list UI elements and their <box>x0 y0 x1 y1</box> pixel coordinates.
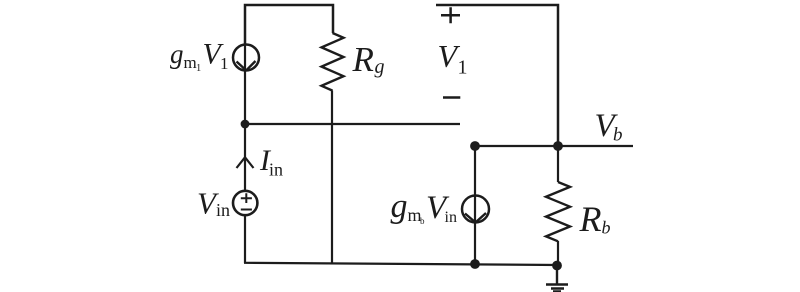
current source gm1V1 arrow <box>237 61 256 70</box>
arrow Iin <box>237 157 254 168</box>
voltage source Vin circle <box>233 191 257 215</box>
label Rg <box>352 40 385 79</box>
voltage source Vin minus sign <box>241 209 252 211</box>
wire Vin source bottom to bottom rail <box>244 216 246 264</box>
svg-text:1: 1 <box>220 54 229 73</box>
wire Vb output <box>475 145 633 147</box>
svg-text:m: m <box>184 53 197 72</box>
svg-text:in: in <box>216 200 230 220</box>
svg-text:b: b <box>613 125 623 146</box>
node C (gmb bottom) <box>470 259 480 269</box>
svg-text:1: 1 <box>196 63 201 74</box>
current source gm1V1 circle <box>233 45 259 71</box>
node B (gmb top) <box>470 141 480 151</box>
node A (input node) <box>241 120 250 129</box>
svg-text:b: b <box>602 218 611 238</box>
resistor Rg <box>322 33 344 91</box>
svg-text:g: g <box>170 39 184 69</box>
label Iin <box>259 144 283 180</box>
wire mid horizontal (V1 minus terminal) <box>245 123 460 125</box>
svg-text:g: g <box>391 188 408 225</box>
svg-text:1: 1 <box>458 57 468 79</box>
resistor Rb <box>546 182 570 241</box>
wire left branch through gm1V1 source <box>244 45 246 192</box>
svg-text:b: b <box>420 216 425 226</box>
label V1 (top right) <box>438 38 468 79</box>
svg-text:R: R <box>579 199 602 239</box>
node Vb <box>553 141 563 151</box>
svg-text:g: g <box>375 56 385 78</box>
wire Rb branch bottom <box>557 241 559 265</box>
wire Rg branch lower <box>331 91 333 264</box>
plus sign of V1 <box>441 7 460 23</box>
svg-text:in: in <box>445 209 457 226</box>
svg-text:R: R <box>352 40 374 79</box>
current source gmbVin arrow <box>465 213 486 222</box>
svg-text:in: in <box>269 160 283 180</box>
label Rb <box>579 199 611 239</box>
minus sign of V1 <box>443 96 460 99</box>
ground <box>546 265 568 292</box>
label gmbVin <box>391 188 457 226</box>
wire Rb branch top <box>557 146 559 182</box>
node ground junction <box>552 261 562 271</box>
label Vb <box>595 108 623 145</box>
wire top-right (V1 plus terminal) <box>436 5 558 146</box>
wire top-left loop <box>245 5 333 45</box>
voltage source Vin plus sign <box>241 193 252 203</box>
current source gmbVin circle <box>462 196 489 223</box>
wire gmb branch <box>474 146 476 264</box>
label Vin <box>197 185 230 220</box>
wire bottom rail <box>244 263 558 265</box>
label gm1V1 <box>170 38 229 75</box>
